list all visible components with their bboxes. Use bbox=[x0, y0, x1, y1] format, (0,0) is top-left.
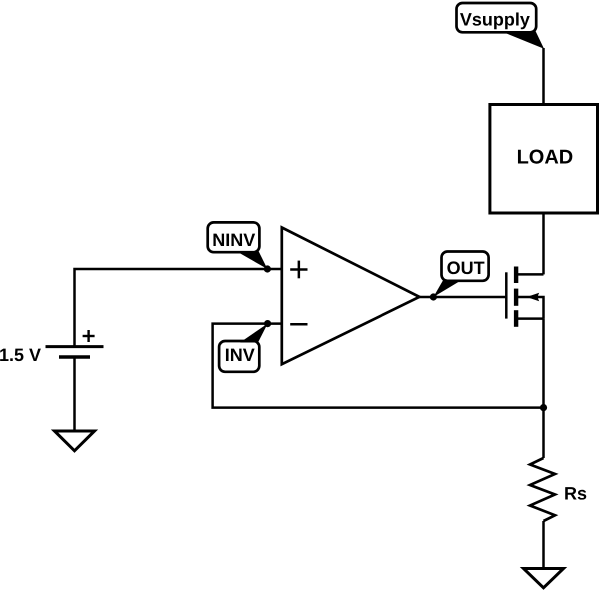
net label Vsupply bbox=[457, 3, 545, 49]
net label NINV bbox=[208, 222, 268, 269]
wire: Vsupply to LOAD top bbox=[542, 48, 545, 105]
source lead bbox=[517, 317, 544, 320]
svg-text:LOAD: LOAD bbox=[517, 147, 574, 169]
net label OUT bbox=[433, 252, 488, 298]
svg-text:1.5 V: 1.5 V bbox=[0, 345, 41, 365]
minus input marking bbox=[290, 323, 307, 326]
junction source node bbox=[540, 404, 547, 411]
wire: feedback from junction to inverting input bbox=[213, 324, 544, 408]
transistor M1 (N-MOSFET) bbox=[506, 267, 543, 327]
wire: MOSFET source to junction bbox=[542, 319, 545, 408]
channel dash top bbox=[514, 267, 518, 284]
junction NINV node bbox=[264, 265, 271, 272]
plus input marking bbox=[290, 268, 307, 271]
wire: LOAD bottom to MOSFET drain bbox=[542, 213, 545, 274]
ground (left) bbox=[55, 431, 95, 451]
wire: resistor to ground bbox=[542, 521, 545, 569]
load block LOAD bbox=[490, 105, 598, 214]
wire: junction to resistor Rs bbox=[542, 408, 545, 458]
wire: battery to ground bbox=[73, 357, 76, 431]
svg-text:NINV: NINV bbox=[212, 230, 255, 250]
wire: op-amp output to MOSFET gate bbox=[419, 296, 506, 299]
junction INV node bbox=[264, 320, 271, 327]
channel dash middle bbox=[514, 289, 518, 306]
plus polarity mark bbox=[83, 335, 95, 337]
long plate bbox=[46, 345, 104, 348]
svg-text:INV: INV bbox=[225, 345, 255, 365]
ground (bottom) bbox=[524, 569, 564, 588]
svg-text:Rs: Rs bbox=[564, 483, 587, 503]
drain lead bbox=[517, 273, 544, 276]
channel dash bottom bbox=[514, 310, 518, 327]
svg-text:Vsupply: Vsupply bbox=[460, 9, 530, 29]
resistor Rs bbox=[530, 458, 555, 521]
svg-text:OUT: OUT bbox=[447, 258, 485, 278]
battery V1 bbox=[46, 330, 104, 357]
op-amp U1 bbox=[282, 228, 420, 365]
wire: battery to non-inverting input bbox=[75, 269, 281, 346]
junction OUT node bbox=[430, 293, 437, 300]
gate line bbox=[505, 272, 508, 318]
net label INV bbox=[219, 324, 268, 372]
body lead with arrow bbox=[517, 297, 544, 319]
short plate bbox=[59, 355, 90, 359]
